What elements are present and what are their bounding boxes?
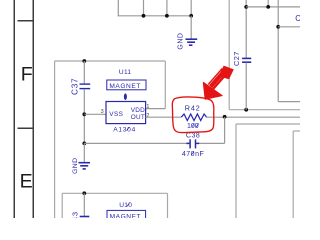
junction dot (246,110)	[244, 108, 248, 112]
wire top-right horizontal y=6	[246, 6, 300, 8]
capacitor C27	[242, 58, 251, 62]
wire C43 lead down	[83, 193, 85, 216]
C37 label (rotated)	[70, 78, 79, 95]
junction dot (84,193)	[82, 191, 86, 195]
junction dot (191,16)	[189, 14, 193, 18]
svg-text:U10: U10	[119, 202, 132, 209]
wire U11 block right edge x=165	[164, 61, 166, 109]
zone letter F	[21, 63, 33, 85]
wire stub up at x=143	[143, 0, 145, 16]
capacitor C37	[80, 84, 91, 89]
block box lower right outline	[236, 124, 300, 218]
partial label C at top right	[295, 14, 301, 23]
OUT pin name	[131, 114, 145, 121]
border frame left inner line	[32, 0, 34, 218]
wire OUT pin2 to resistor	[146, 116, 182, 118]
junction dot (246,6)	[244, 5, 248, 9]
svg-text:U11: U11	[119, 69, 132, 76]
pin number 1	[146, 104, 149, 110]
svg-text:GND: GND	[72, 158, 79, 174]
svg-text:MAGNET: MAGNET	[110, 213, 142, 218]
wire U11 block rail top y=61	[55, 60, 166, 62]
A1304 value label	[113, 127, 136, 134]
resistor R42 zigzag	[181, 114, 206, 121]
svg-text:C43: C43	[71, 211, 80, 218]
svg-text:C27: C27	[232, 51, 241, 66]
junction dot (167,16)	[165, 14, 169, 18]
wire vertical x=229 net	[228, 0, 230, 110]
C43 label (rotated, cut off)	[71, 211, 80, 227]
C38 value 470nF	[182, 151, 204, 158]
junction dot (278,27)	[276, 25, 280, 29]
svg-text:VSS: VSS	[109, 111, 123, 118]
svg-text:1: 1	[146, 104, 149, 110]
VDD pin name	[131, 107, 145, 114]
wire corner y=101.5 to right edge	[278, 101, 300, 103]
svg-text:2: 2	[146, 113, 149, 119]
svg-text:E: E	[20, 170, 33, 192]
red annotation ellipse around R42	[172, 97, 214, 133]
svg-text:100: 100	[187, 123, 199, 130]
wire GND drop at x=191	[190, 16, 192, 39]
junction dot (143.5,16)	[142, 14, 146, 18]
pin number 2	[146, 113, 149, 119]
svg-text:OUT: OUT	[131, 114, 145, 121]
svg-text:A1304: A1304	[113, 127, 136, 134]
svg-text:F: F	[21, 63, 33, 85]
MAGNET box U11	[107, 80, 146, 90]
junction dot (84,143.5)	[82, 142, 86, 146]
red annotation arrow pointing at R42	[203, 66, 233, 99]
wire horizontal y=27 to right edge	[278, 26, 300, 28]
svg-text:3: 3	[101, 109, 104, 115]
C38 label	[186, 133, 200, 140]
wire C37 top lead	[83, 61, 85, 84]
wire VDD pin1 horizontal	[146, 108, 166, 110]
wire stub up-left corner of top rail	[117, 0, 119, 16]
svg-text:C: C	[295, 14, 300, 23]
GND label (lower, rotated)	[72, 158, 79, 174]
nested box lower right outline	[293, 131, 300, 218]
pin number 3	[101, 109, 104, 115]
svg-text:GND: GND	[178, 33, 185, 50]
svg-text:C38: C38	[186, 133, 200, 140]
svg-text:C37: C37	[70, 78, 79, 95]
wire resistor output to right edge	[207, 116, 300, 118]
wire C27 bottom lead	[245, 63, 247, 110]
C27 label (rotated)	[232, 51, 241, 66]
zone letter E	[20, 170, 33, 192]
wire C38 branch down from R42 output	[224, 117, 226, 143]
wire stub up at x=167	[166, 0, 168, 16]
U11 refdes label	[119, 69, 132, 76]
wire C27 branch top	[245, 0, 247, 58]
GND label (top, rotated)	[178, 33, 185, 50]
U10 refdes label	[119, 202, 132, 209]
ground symbol GND (top)	[186, 39, 198, 45]
zone divider tick lower	[18, 127, 34, 129]
zone divider tick upper	[18, 20, 34, 22]
junction dot (84,61)	[82, 59, 86, 63]
junction dot (268,6)	[266, 5, 270, 9]
svg-text:R42: R42	[185, 104, 201, 113]
wire C37 bottom lead down to pin3 junction	[83, 89, 85, 144]
VSS pin name	[109, 111, 123, 118]
U10 block box outline	[62, 193, 167, 218]
MAGNET box U10 (cut off)	[107, 210, 146, 220]
wire C38 right lead to corner	[196, 142, 225, 144]
wire top GND rail horizontal	[118, 15, 191, 17]
op-amp/hall IC U1 body box	[106, 102, 146, 124]
svg-text:MAGNET: MAGNET	[109, 83, 141, 90]
ground symbol GND (lower)	[79, 163, 91, 169]
R42 value 100	[187, 123, 199, 130]
wire stub up at x=268	[267, 0, 269, 7]
wire U11 block left edge x=54.5 full height	[54, 61, 56, 218]
wire stub up at x=191	[190, 0, 192, 16]
capacitor C43 top plate	[80, 216, 90, 218]
wire VSS pin3 horizontal	[84, 113, 106, 115]
junction dot (84,114)	[82, 112, 86, 116]
blue arrow from MAGNET to IC	[124, 93, 127, 100]
capacitor C38	[186, 139, 199, 148]
wire horizontal y=110 net	[229, 109, 300, 111]
wire GND drop to lower ground	[83, 143, 85, 162]
wire vertical x=278	[277, 0, 279, 102]
wire GND net y=143.5 to C38	[84, 142, 190, 144]
R42 refdes label	[185, 104, 201, 113]
junction dot (224.7,117)	[223, 115, 227, 119]
border frame left outer line	[13, 0, 15, 218]
